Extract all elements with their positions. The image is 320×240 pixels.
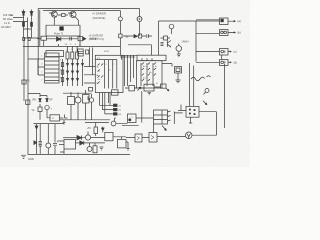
diode D5: [57, 37, 61, 41]
oscillator box: [128, 114, 137, 123]
wire right return: [192, 64, 225, 135]
connector J1 ladder: [45, 53, 60, 83]
bottom rail: [28, 153, 131, 155]
wire out top: [158, 21, 160, 55]
wire cap rail: [120, 54, 137, 56]
wire bus vertical x24: [23, 38, 25, 101]
wire U3 link: [136, 117, 154, 119]
resistor R2: [78, 37, 83, 41]
node AC input labels: [1, 13, 13, 29]
label Ba: [126, 36, 130, 38]
lamp DS1: [137, 9, 142, 37]
wire driver top: [43, 10, 86, 13]
capacitor C1: [120, 55, 123, 60]
node U1 top label: [104, 51, 110, 53]
wire left regulator branch: [28, 94, 40, 120]
diode D7: [63, 136, 82, 140]
U1 left pins: [93, 67, 100, 86]
transistor Q1: [49, 11, 57, 17]
wire B3 arrow: [166, 88, 169, 91]
wire R14 down: [177, 73, 179, 80]
diode D6: [123, 35, 146, 38]
buffer A4: [220, 60, 229, 66]
transistor Q2: [68, 11, 76, 17]
transistor cluster: box P1: [68, 97, 75, 105]
box M1: [149, 133, 157, 143]
svg-text:GND: GND: [28, 157, 34, 161]
fuse F1: [22, 22, 25, 27]
ground bus1: [63, 120, 66, 124]
node +5V label: [87, 127, 92, 130]
ground B2: [148, 92, 152, 95]
wire pad feeds: [99, 100, 113, 114]
resistor R20 on x24: [22, 80, 30, 84]
transistor Q4: [75, 97, 81, 103]
annotation circle right: [204, 89, 210, 95]
svg-text:L1 N: L1 N: [4, 21, 10, 25]
wire vert drop x141.8: [141, 91, 143, 123]
zener VR1: [32, 99, 41, 102]
box REF: [50, 115, 64, 121]
IC U1: [95, 55, 123, 92]
resistor R23: [86, 50, 89, 54]
wire bottom bus1: [34, 120, 111, 124]
crystal Y1: [78, 49, 83, 56]
svg-text:O: O: [131, 117, 133, 119]
svg-text:(b): (b): [238, 31, 241, 35]
buffer A1: [220, 18, 229, 25]
hanger C4: [39, 124, 42, 155]
diode D2: [30, 10, 33, 22]
regulator box: [64, 140, 76, 150]
wire top rail: [38, 8, 139, 10]
diode D11: [83, 37, 86, 40]
wire bottom mid: [126, 137, 189, 151]
wire cluster tops: [63, 90, 92, 98]
wire bus vertical x28: [27, 38, 29, 154]
diode D1: [22, 10, 25, 22]
pad labels: [118, 105, 122, 116]
svg-text:1N414: 1N414: [182, 41, 190, 44]
capacitor C7: [132, 55, 135, 60]
wire AC feed: [13, 18, 28, 22]
box F1: [105, 132, 113, 140]
svg-text:VA: VA: [32, 109, 35, 112]
svg-text:+5V: +5V: [87, 127, 92, 130]
svg-text:Pulse T1: Pulse T1: [54, 33, 64, 36]
resistor R22 between bases: [58, 14, 68, 17]
transistor Q13: [45, 105, 53, 110]
fuse F2: [30, 22, 33, 27]
box B2: [144, 84, 154, 91]
wire out d: [196, 61, 220, 63]
svg-text:3524: 3524: [104, 51, 110, 53]
wire inter-chip verticals: [125, 60, 134, 86]
U3 right pins: [168, 111, 171, 121]
pads stack: [113, 104, 117, 116]
box B1: [129, 85, 135, 91]
wire B row links: [125, 87, 161, 88]
transformer T1 box: [46, 25, 80, 36]
transistor Q9: [87, 147, 92, 152]
node U1 labels: [97, 58, 116, 81]
wire F1 right: [91, 137, 126, 140]
wire c-d link: [221, 55, 223, 60]
junction box on DS2 line: [119, 34, 122, 55]
wire EP branch: [40, 96, 47, 98]
resistor R21 on x28: [26, 100, 30, 104]
diode D8: [102, 127, 105, 133]
box E5: [161, 36, 171, 40]
capacitor C2: [123, 55, 126, 60]
resistor R1: [41, 36, 47, 46]
svg-text:(SOURCE): (SOURCE): [93, 16, 106, 20]
wire matrix feeds: [84, 48, 93, 84]
wire bottom links: [84, 143, 105, 147]
buffer A2: [220, 30, 229, 36]
wire cluster drops: [71, 102, 92, 120]
resistor R5: [66, 46, 69, 59]
wire reg inputs: [58, 141, 65, 154]
ground Q7: [177, 54, 181, 57]
IC U2 top box: [137, 55, 166, 61]
wire AC dashes: [10, 15, 13, 19]
box F2: [118, 139, 127, 148]
transformer T1 label: [54, 33, 64, 36]
motor M: [185, 132, 192, 139]
node +V driver label: [92, 12, 106, 21]
transistor Q8: [82, 132, 91, 141]
capacitor C3: [126, 55, 129, 60]
wire right drops: [190, 63, 194, 107]
wire mid rail: [23, 44, 121, 47]
transistor Q11: [111, 118, 127, 126]
transistor Q5: [89, 98, 93, 102]
IC U3 double box: [154, 110, 168, 124]
wire T2 bottom stub: [189, 118, 192, 124]
node 1N4148 label: [89, 38, 98, 41]
U1 bottom wires: [99, 93, 110, 110]
resistor R17: [93, 146, 97, 153]
svg-text:(c): (c): [234, 50, 237, 54]
diode matrix: [61, 59, 83, 86]
box VA: [32, 107, 43, 112]
node out labels: [234, 19, 241, 64]
wire bottom bus2: [85, 123, 139, 126]
wire T2 left bracket: [178, 105, 186, 111]
wire rail right seg: [128, 45, 152, 55]
wire out c: [196, 51, 220, 53]
resistor R6: [71, 46, 74, 59]
node U2 labels: [143, 66, 159, 85]
ground G2: [176, 80, 181, 83]
hanger Q12: [46, 124, 51, 155]
svg-text:(d): (d): [234, 61, 237, 65]
marks K1: [161, 43, 164, 46]
hanger D10: [34, 124, 38, 155]
transistor Q6: [167, 41, 171, 48]
row under U2: arrow mark: [138, 87, 142, 91]
wire vertical pair feed: [38, 9, 40, 76]
wire out a: [159, 20, 220, 62]
wire gate row: [37, 38, 78, 40]
wire Q13 down: [47, 110, 50, 118]
buffer A3: [220, 49, 229, 56]
capacitor C8: [147, 34, 152, 38]
pad block U1: [112, 90, 119, 95]
junction marks on bus: [23, 38, 31, 41]
hanger C5: [53, 124, 59, 155]
resistor R7: [76, 46, 79, 59]
node J1 pin labels: [41, 56, 62, 82]
IC U2 body: [137, 61, 163, 88]
jog cap: [70, 37, 72, 41]
node matrix labels: [65, 44, 77, 52]
resistor R14: [175, 67, 182, 74]
svg-text:VR1: VR1: [32, 100, 37, 102]
box B3: [161, 84, 167, 88]
transformer T2: [186, 106, 199, 117]
transistor Q10: [169, 24, 174, 34]
box P2: [83, 95, 90, 104]
svg-text:1N4148: 1N4148: [89, 38, 98, 41]
node GND label: [28, 157, 34, 161]
wire T2 arrow: [203, 101, 207, 105]
wire out b: [196, 32, 220, 34]
annotation squiggle: [191, 76, 211, 81]
transistor Q7: [176, 44, 182, 55]
node label 1N414: [182, 41, 190, 44]
svg-text:(a): (a): [238, 19, 241, 23]
node gate label: [89, 35, 104, 42]
ground marks bottom: [100, 147, 104, 150]
wire U3 down: [153, 124, 155, 133]
ground bottom left: [21, 155, 26, 158]
box E4: [139, 34, 142, 38]
svg-text:EP: EP: [50, 100, 54, 102]
svg-text:PS: PS: [27, 81, 31, 83]
lamp DS2: [86, 11, 122, 34]
pin marks U2: [142, 63, 156, 82]
diode EP: [46, 99, 53, 102]
resistor R15: [94, 123, 98, 137]
diode D9: [76, 141, 84, 145]
svg-text:+V DRIVER: +V DRIVER: [92, 12, 106, 16]
box M0: [135, 134, 142, 142]
capacitor C6: [129, 55, 132, 60]
svg-text:60 Hz: 60 Hz: [3, 17, 11, 21]
pad small U1 left: [88, 88, 93, 100]
wire U3 right vert: [174, 112, 182, 125]
wire bridge mid: [24, 18, 40, 39]
wire Q2 to T1: [54, 17, 80, 46]
svg-text:AC RET: AC RET: [1, 25, 11, 29]
transformer T1 core: [59, 26, 63, 30]
wire L mark: [65, 115, 68, 119]
U1 inner pin arrows: [98, 64, 104, 84]
connector J1 top box: [46, 51, 64, 57]
annotation arrow bottom: [162, 126, 167, 131]
wire J1 stubs: [28, 59, 45, 75]
wire arrows out: [228, 21, 236, 63]
wire U2 right: [162, 64, 172, 67]
